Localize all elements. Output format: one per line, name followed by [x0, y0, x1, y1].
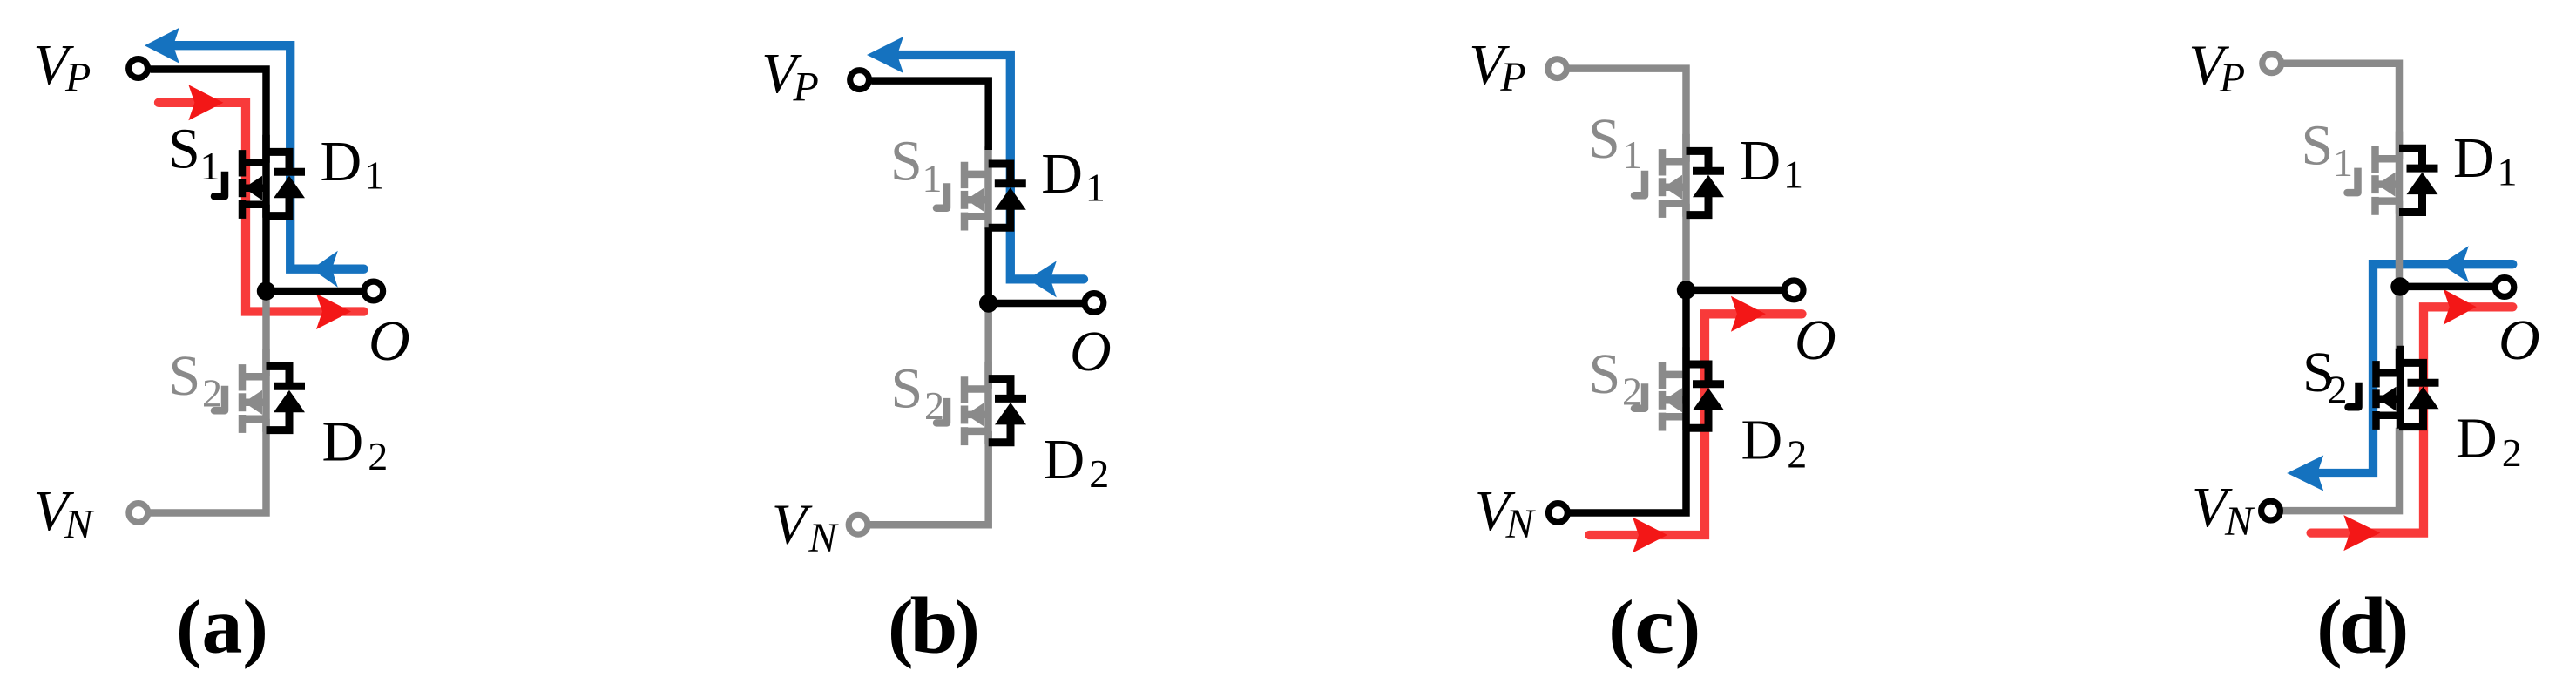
svg-text:D: D — [322, 410, 364, 474]
red arrowhead on bottom segment (a) — [316, 294, 351, 329]
red arrowhead on top segment (c) — [1731, 296, 1766, 332]
terminal circle VP (b) — [850, 71, 869, 90]
junction node dot (a) — [257, 281, 275, 300]
svg-text:O: O — [2498, 308, 2540, 372]
svg-text:S: S — [169, 344, 201, 408]
wire VP to S1 (gray, d) — [2284, 64, 2400, 159]
svg-text:1: 1 — [2333, 140, 2353, 185]
svg-text:O: O — [1795, 308, 1836, 372]
transistor S2 (N-MOSFET symbol, off/gray) — [214, 349, 267, 433]
terminal label V_P (c) — [1469, 33, 1526, 100]
body diode D1 — [2399, 148, 2438, 212]
transistor S1 (N-MOSFET symbol, off/gray) — [1634, 134, 1687, 218]
svg-text:N: N — [64, 502, 95, 548]
svg-text:S: S — [1589, 342, 1621, 406]
transistor S1 (N-MOSFET symbol, off/gray) — [936, 146, 989, 230]
terminal label V_P (b) — [761, 42, 819, 111]
svg-text:2: 2 — [1622, 369, 1642, 413]
label D1 (b) — [1041, 142, 1105, 210]
svg-text:N: N — [2224, 498, 2255, 545]
panel caption (d) — [2316, 581, 2409, 670]
red arrowhead on top segment (a) — [188, 85, 223, 120]
red current path VN->D2->O (panel c) — [1589, 314, 1802, 535]
label D1 (c) — [1740, 129, 1804, 197]
svg-text:1: 1 — [2498, 150, 2518, 194]
svg-text:2: 2 — [1787, 432, 1807, 477]
body diode D2 — [2399, 362, 2439, 426]
transistor S2 (N-MOSFET symbol, off/gray) — [936, 362, 989, 445]
wire S2 source to VN (gray, a) — [150, 419, 267, 513]
svg-text:2: 2 — [924, 383, 944, 428]
terminal circle O (a) — [364, 281, 383, 301]
svg-text:a: a — [202, 581, 243, 670]
svg-text:O: O — [1070, 320, 1112, 383]
svg-text:S: S — [2302, 114, 2334, 178]
panel caption (a) — [176, 581, 268, 670]
svg-text:c: c — [1634, 581, 1674, 670]
svg-text:2: 2 — [2328, 368, 2348, 412]
terminal circle VN (a) — [129, 504, 148, 523]
wire stub above S2 (black, d) — [2396, 349, 2404, 374]
svg-text:D: D — [2453, 126, 2495, 190]
svg-text:N: N — [808, 515, 839, 561]
terminal circle O (b) — [1085, 294, 1104, 313]
svg-text:D: D — [1741, 408, 1783, 471]
junction node dot (d) — [2390, 277, 2409, 295]
svg-text:O: O — [368, 309, 410, 373]
red arrowhead on bottom segment (c) — [1633, 518, 1667, 553]
wire VP down (black, b) — [872, 81, 989, 150]
blue current path O->S2->VN (panel d) — [2313, 264, 2512, 473]
svg-text:S: S — [1588, 107, 1620, 171]
transistor S2 (N-MOSFET symbol, off/gray) — [1634, 347, 1687, 430]
blue arrowhead on bottom segment (b) — [1028, 261, 1057, 297]
label S1 (c) — [1588, 107, 1642, 177]
svg-text:P: P — [1499, 54, 1525, 100]
body diode D2 — [267, 366, 306, 430]
body diode D1 — [267, 152, 306, 215]
wire S1 source to node (gray, c) — [1682, 204, 1690, 290]
svg-text:D: D — [321, 130, 362, 193]
blue end arrowhead bottom-left (d) — [2287, 456, 2323, 491]
terminal label V_N (a) — [33, 479, 95, 548]
terminal label V_P (a) — [33, 33, 91, 101]
junction node dot (b) — [979, 294, 997, 312]
transistor S1 (N-MOSFET symbol, on/black) — [214, 135, 267, 219]
svg-text:1: 1 — [1783, 152, 1803, 197]
svg-text:1: 1 — [364, 153, 384, 198]
terminal circle VN (c) — [1549, 504, 1568, 523]
label S1 (b) — [890, 129, 943, 200]
svg-text:N: N — [1505, 501, 1537, 547]
svg-text:V: V — [772, 492, 813, 556]
svg-text:D: D — [1740, 129, 1782, 193]
terminal circle VN (b) — [849, 515, 868, 534]
svg-text:): ) — [2383, 586, 2409, 670]
terminal label V_N (d) — [2192, 476, 2255, 545]
wire S2 source to VN (gray, b) — [870, 431, 989, 525]
label D2 (c) — [1741, 408, 1808, 476]
svg-text:S: S — [891, 356, 923, 420]
wire node to O (a) — [267, 288, 363, 295]
terminal circle O (d) — [2495, 278, 2514, 297]
svg-text:P: P — [64, 55, 91, 101]
wire VP to S1 drain (a) — [151, 70, 267, 163]
red current path VP->S1->O (panel a) — [159, 103, 364, 312]
svg-text:P: P — [793, 64, 819, 111]
label S2 (c) — [1589, 342, 1643, 414]
panel caption (c) — [1608, 581, 1700, 670]
junction node dot (c) — [1677, 281, 1695, 299]
terminal circle VP (a) — [129, 59, 148, 78]
label D2 (b) — [1044, 428, 1110, 496]
terminal label V_N (c) — [1475, 479, 1537, 547]
svg-text:D: D — [1041, 142, 1083, 206]
svg-text:b: b — [910, 581, 958, 670]
svg-text:D: D — [2456, 407, 2498, 471]
svg-text:2: 2 — [202, 371, 222, 416]
terminal circle O (c) — [1784, 281, 1803, 300]
body diode D1 — [989, 164, 1026, 227]
red arrowhead on top segment (d) — [2444, 289, 2477, 325]
wire node to S2 drain (gray, b) — [984, 303, 992, 389]
body diode D2 — [1687, 364, 1725, 428]
svg-text:1: 1 — [1085, 165, 1105, 209]
blue arrowhead on bottom segment (a) — [312, 251, 338, 288]
blue end arrowhead top-left (a) — [145, 28, 179, 64]
svg-text:D: D — [1044, 428, 1085, 491]
svg-text:): ) — [1675, 586, 1700, 670]
label S1 (a) — [168, 118, 220, 189]
terminal circle VN (d) — [2262, 501, 2281, 520]
panel caption (b) — [888, 581, 980, 670]
wire VP to S1 (gray, c) — [1569, 69, 1687, 162]
svg-text:1: 1 — [1622, 132, 1642, 177]
svg-text:(: ( — [176, 586, 201, 670]
body diode D2 — [989, 379, 1026, 443]
wire S1 source to node (a) — [262, 205, 270, 291]
svg-text:1: 1 — [923, 156, 943, 200]
terminal circle VP (c) — [1548, 59, 1567, 78]
svg-text:1: 1 — [200, 144, 220, 188]
wire S1 source through node to S2 (gray, d) — [2396, 201, 2404, 350]
transistor S1 (N-MOSFET symbol, off/gray) — [2348, 132, 2400, 215]
wire node through S2 to VN (black, c) — [1570, 290, 1687, 513]
wire node to O (d) — [2400, 283, 2492, 291]
label D2 (a) — [322, 410, 389, 478]
svg-text:(: ( — [1608, 586, 1633, 670]
label S2 (a) — [169, 344, 223, 416]
blue end arrowhead top-left (b) — [867, 37, 903, 73]
svg-text:2: 2 — [2502, 430, 2522, 475]
wire node to O (c) — [1687, 287, 1782, 295]
wire node to O (b) — [989, 300, 1083, 308]
label D1 (a) — [321, 130, 385, 198]
wire S2 source to VN (gray, d) — [2282, 428, 2399, 511]
terminal circle VP (d) — [2262, 54, 2282, 73]
transistor S2 (N-MOSFET symbol, on/black) — [2349, 346, 2401, 430]
blue arrowhead on top segment (d) — [2441, 246, 2469, 282]
svg-text:): ) — [243, 586, 268, 670]
svg-text:S: S — [890, 129, 923, 193]
body diode D1 — [1687, 151, 1725, 214]
terminal label V_P (d) — [2188, 33, 2245, 101]
label S1 (d) — [2302, 114, 2354, 186]
red current path VN->D2->O (panel d) — [2311, 307, 2513, 532]
label D1 (d) — [2453, 126, 2518, 194]
svg-text:2: 2 — [1089, 451, 1109, 496]
blue current path O->D1->VP (panel b) — [897, 55, 1084, 279]
svg-text:d: d — [2339, 581, 2387, 670]
red arrowhead on bottom segment (d) — [2343, 515, 2380, 551]
svg-text:P: P — [2219, 55, 2245, 101]
svg-text:): ) — [955, 586, 980, 670]
wire node to S2 drain (gray, a) — [262, 291, 270, 376]
wire D1 to node (black, b) — [984, 227, 992, 303]
label D2 (d) — [2456, 407, 2522, 475]
svg-text:2: 2 — [368, 434, 388, 478]
blue current path O->S1->VP (panel a) — [171, 45, 364, 269]
svg-text:S: S — [168, 118, 200, 181]
terminal label V_N (b) — [772, 492, 840, 561]
label S2 (d) — [2302, 341, 2348, 412]
label S2 (b) — [891, 356, 945, 428]
